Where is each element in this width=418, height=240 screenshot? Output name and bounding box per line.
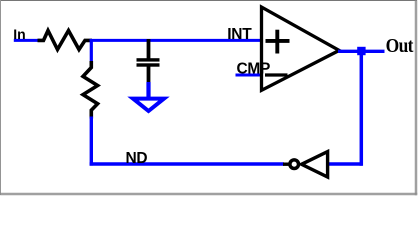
wire junction down to R2 (90, 39, 93, 63)
op-amp U1 minus input mark (265, 73, 288, 76)
inverter U2 bubble (290, 160, 299, 169)
inverter U2 output lead stub (283, 162, 290, 165)
svg-text:ND: ND (126, 150, 148, 167)
junction node square at Out (357, 47, 365, 55)
inverter U2 triangle (pointing left) (302, 152, 328, 177)
op-amp U1 (comparator triangle) (262, 7, 340, 90)
wire In stub (14, 39, 40, 42)
capacitor C1 bottom lead (147, 67, 151, 85)
wire cap to ground (146, 82, 150, 98)
svg-text:INT: INT (227, 26, 252, 43)
wire main top (node to op-amp + input) (90, 39, 261, 42)
wire CMP stub (- input) (236, 74, 261, 77)
wire bottom rail (ND net) (90, 162, 284, 166)
resistor R1 (horizontal) (38, 31, 93, 50)
resistor R2 (vertical) (83, 61, 98, 119)
op-amp U1 plus input mark (266, 39, 290, 43)
wire R2 bottom to bottom rail (90, 117, 93, 166)
svg-text:Out: Out (386, 35, 414, 57)
capacitor C1 top lead (147, 39, 151, 59)
wire Out down to inverter (360, 51, 364, 166)
wire op-amp output to Out (338, 50, 385, 53)
capacitor C1 plates (137, 58, 160, 61)
ground symbol (133, 99, 164, 111)
wire inverter output to bottom rail (right side) (328, 162, 363, 166)
svg-text:In: In (13, 26, 25, 42)
